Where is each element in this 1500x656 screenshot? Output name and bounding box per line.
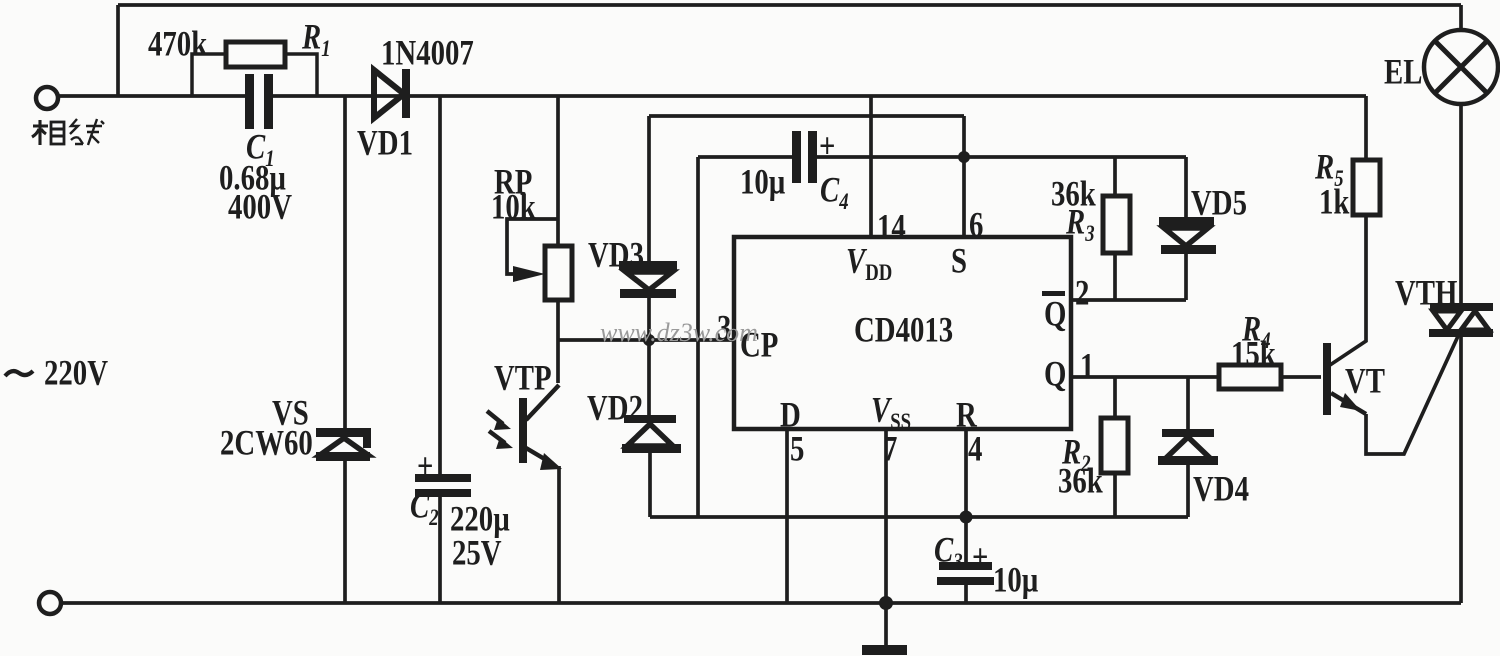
node junction pin7/neutral rail <box>879 596 893 610</box>
label R5 <box>1315 149 1344 185</box>
resistor R3 <box>1103 196 1130 253</box>
triac VTH <box>1429 303 1493 337</box>
wire zener VS branch upper <box>343 96 347 428</box>
node junction pin4/bus <box>960 511 973 524</box>
wire CP node to VD2 <box>647 340 651 416</box>
transistor VT <box>1323 343 1366 415</box>
label S <box>951 243 967 279</box>
wire C3 lower lead <box>964 585 968 603</box>
label 15k <box>1231 336 1276 372</box>
wire RP to VTP collector <box>556 300 560 383</box>
label Q <box>1044 356 1066 392</box>
wire VD3 to CP node <box>647 298 651 340</box>
label VTH <box>1395 275 1457 311</box>
wire bottom neutral rail <box>60 601 1461 605</box>
wire VD3 top riser <box>647 116 651 262</box>
label D <box>780 397 801 433</box>
wire main phase line left of C1 <box>57 94 246 98</box>
wire EL riser top <box>1459 5 1463 29</box>
label 400V <box>228 189 292 225</box>
node phase terminal <box>36 87 58 109</box>
label CD4013 <box>854 312 953 348</box>
phototransistor VTP <box>487 385 562 470</box>
label R4 <box>1242 311 1271 347</box>
diode VD1 <box>374 69 410 118</box>
wire R3 lower lead <box>1113 253 1117 300</box>
wire VD4 to ground bus <box>1186 464 1190 517</box>
label R pin <box>956 397 977 433</box>
wire R2 lower lead <box>1113 473 1117 517</box>
label pin7 <box>883 431 897 467</box>
wire VD2 to ground bus <box>648 453 652 517</box>
label R2 <box>1062 434 1091 470</box>
label plus C3 <box>972 539 988 575</box>
wire EL to VTH <box>1459 104 1463 304</box>
label VD1 <box>357 125 413 161</box>
lamp EL <box>1424 30 1498 104</box>
wire main phase line right of C1 <box>272 94 1366 98</box>
label pin3 <box>717 310 731 346</box>
label 2CW60 <box>220 425 313 461</box>
diode VD4 <box>1158 429 1218 465</box>
wire Vdd line left segment to C4 <box>698 155 792 159</box>
wire RP branch from phase line <box>556 96 560 246</box>
wire Vdd line right segment <box>817 155 1186 159</box>
capacitor C4 <box>792 131 817 183</box>
diode VD2 <box>622 415 681 453</box>
label C3 <box>934 532 963 568</box>
capacitor C3 <box>937 562 994 585</box>
node neutral terminal <box>39 592 61 614</box>
resistor R1 <box>192 42 317 96</box>
label R3 <box>1066 204 1095 240</box>
label VT <box>1345 363 1385 399</box>
potentiometer RP wiper <box>507 219 558 282</box>
label VD3 <box>588 237 644 273</box>
wire R2 upper lead <box>1113 377 1117 418</box>
label 1N4007 <box>381 35 474 71</box>
diode VD3 <box>619 261 677 298</box>
wire R3 upper lead <box>1113 157 1117 196</box>
label phase line (drawn strokes) <box>31 116 111 148</box>
resistor R4 <box>1219 365 1281 389</box>
label 220V <box>44 355 108 391</box>
capacitor C1 <box>245 74 273 129</box>
wire riser pin6 x964 <box>962 116 966 237</box>
wire VD4 upper lead <box>1186 377 1190 430</box>
wire C2 branch lower <box>438 497 442 603</box>
label VS <box>272 395 309 431</box>
wire VTP emitter to neutral rail <box>557 466 561 603</box>
wire R5 to VT collector <box>1330 215 1366 365</box>
label Vss <box>871 392 911 428</box>
wire VD5 lower lead <box>1184 253 1188 300</box>
wire pin2 line <box>1071 298 1186 302</box>
wire C3 upper lead <box>964 517 968 563</box>
node junction CP/VD2/VD3 <box>643 334 655 346</box>
label VD4 <box>1193 471 1249 507</box>
label 0.68u <box>219 160 286 196</box>
label 25V <box>452 535 502 571</box>
diode VD5 <box>1159 217 1216 254</box>
wire pin4 drop <box>964 429 968 517</box>
label Qbar <box>1044 296 1066 332</box>
label plus C4 <box>819 128 835 164</box>
wire VD5 upper lead <box>1184 157 1188 218</box>
potentiometer RP body <box>545 246 572 300</box>
capacitor C2 <box>415 474 471 497</box>
wire C2 branch upper <box>438 96 442 476</box>
label VD5 <box>1191 185 1247 221</box>
wire left riser from phase line to top rail <box>116 5 120 96</box>
wire ground bus y517 <box>650 515 1188 519</box>
label pin6 <box>969 207 983 243</box>
label C4 <box>820 172 849 208</box>
resistor R2 <box>1101 418 1128 473</box>
label AC tilde <box>2 362 42 386</box>
label 1k <box>1319 184 1349 220</box>
resistor R5 <box>1353 160 1380 215</box>
label CP <box>740 327 778 363</box>
label Qbar overline <box>1042 291 1065 296</box>
label 220u <box>450 501 510 537</box>
label RP <box>494 164 532 200</box>
label 10u C4 <box>740 164 785 200</box>
wire pin5 drop <box>785 429 789 603</box>
wire R4 to VT base <box>1281 375 1321 379</box>
zener VS 2CW60 <box>316 428 371 461</box>
wire ground drop x698 <box>696 157 700 517</box>
wire zener VS branch lower <box>343 460 347 603</box>
wire pin1 line <box>1071 375 1219 379</box>
wire VT emitter to VTH gate <box>1366 334 1459 454</box>
wire top rail <box>118 3 1461 7</box>
node junction Vdd line <box>958 151 970 163</box>
label 36k R3 <box>1051 176 1096 212</box>
label 470k <box>148 26 207 62</box>
wire VTH to neutral rail <box>1459 337 1463 603</box>
label EL <box>1384 54 1422 90</box>
label Vdd <box>846 243 892 279</box>
label pin2 <box>1075 275 1089 311</box>
label C1 <box>246 129 275 165</box>
ground <box>862 603 907 655</box>
label pin5 <box>790 431 804 467</box>
label pin1 <box>1080 348 1094 384</box>
label pin14 <box>877 209 906 245</box>
wire pin14 riser <box>869 96 873 237</box>
label 10k <box>491 189 536 225</box>
label VTP <box>494 360 552 396</box>
label 10u C3 <box>993 562 1038 598</box>
label VD2 <box>587 390 643 426</box>
label C2 <box>410 488 439 524</box>
op-amp U1 CD4013 box <box>734 237 1071 429</box>
label 36k R2 <box>1058 463 1103 499</box>
label plus C2 <box>417 448 433 484</box>
wire R5 riser from phase line <box>1364 96 1368 160</box>
watermark <box>600 318 758 348</box>
wire pin7 drop <box>884 429 888 603</box>
label pin4 <box>968 431 982 467</box>
wire upper loop y116 <box>649 114 964 118</box>
wire CP line from RP to IC pin3 <box>558 338 734 342</box>
label R1 <box>302 19 331 55</box>
